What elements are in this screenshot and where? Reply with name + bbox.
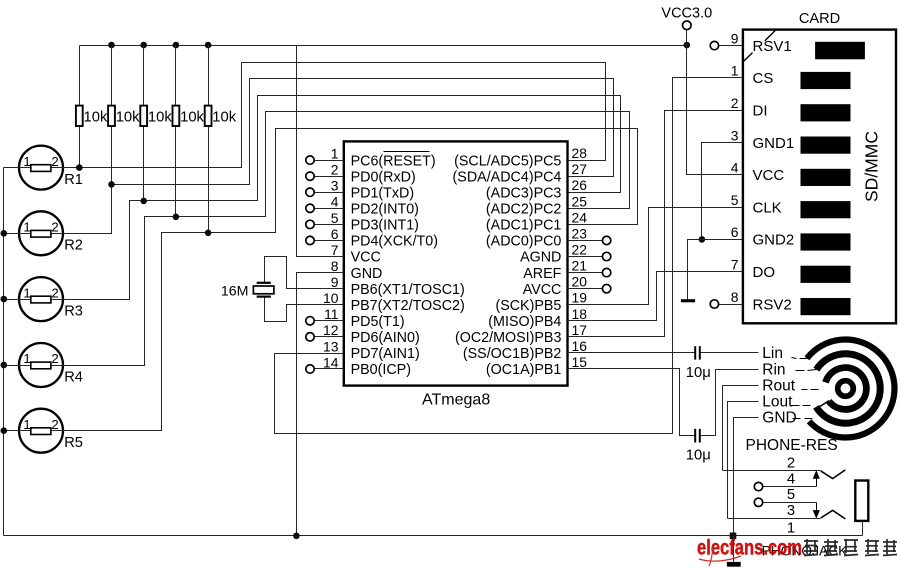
svg-text:10k: 10k [116, 109, 140, 125]
wire pin16 OC1B to C1 [568, 352, 695, 354]
wire Lout down to jack pin3 [728, 402, 759, 519]
wire VCC3.0 to card VCC [687, 46, 743, 175]
svg-text:14: 14 [323, 354, 339, 370]
svg-text:PC6(RESET): PC6(RESET) [351, 153, 436, 169]
dashes Lout [791, 405, 800, 407]
jack pin4 switch [763, 486, 817, 488]
svg-text:AGND: AGND [520, 250, 561, 266]
svg-text:(ADC2)PC2: (ADC2)PC2 [486, 202, 562, 218]
svg-text:CARD: CARD [799, 11, 840, 27]
svg-text:1: 1 [23, 220, 30, 235]
svg-text:PHONE-RES: PHONE-RES [746, 437, 838, 454]
arrow down pin5 [813, 510, 820, 518]
ground symbol bottom [733, 536, 735, 563]
pin 6 open terminal [315, 240, 344, 242]
svg-text:R2: R2 [64, 238, 83, 254]
arrow up pin4 [813, 470, 820, 479]
svg-text:PD4(XCK/T0): PD4(XCK/T0) [351, 234, 438, 250]
svg-text:3: 3 [787, 503, 795, 519]
svg-text:3: 3 [331, 178, 339, 194]
wire R4 to PC2 pin25 [64, 112, 630, 366]
svg-text:10k: 10k [84, 109, 108, 125]
connector J1 SD/MMC card body [743, 30, 896, 324]
wire R4 pin1 to ground rail [4, 365, 20, 367]
svg-text:16M: 16M [221, 283, 249, 299]
svg-text:CS: CS [753, 70, 774, 87]
svg-text:PB0(ICP): PB0(ICP) [351, 362, 411, 378]
card pad GND1 [801, 137, 851, 154]
svg-text:1: 1 [23, 154, 30, 169]
svg-text:VCC: VCC [753, 167, 785, 184]
svg-text:2: 2 [51, 154, 58, 169]
wire R5 to PC1 pin24 [64, 129, 638, 431]
dashes Rin [796, 370, 805, 372]
wire R1 to PC5 pin28 [64, 63, 606, 168]
svg-text:2: 2 [51, 285, 58, 300]
svg-text:10μ: 10μ [686, 365, 711, 381]
card RSV1 open terminal [719, 45, 743, 47]
svg-text:SD/MMC: SD/MMC [862, 131, 882, 202]
svg-text:(SCL/ADC5)PC5: (SCL/ADC5)PC5 [454, 153, 561, 169]
resistor 10k #4 [175, 46, 177, 106]
svg-text:PD0(RxD): PD0(RxD) [351, 169, 416, 185]
svg-text:PD5(T1): PD5(T1) [351, 314, 405, 330]
svg-text:2: 2 [787, 456, 795, 472]
svg-text:18: 18 [572, 306, 588, 322]
svg-text:4: 4 [787, 471, 795, 487]
dashes GND [793, 418, 801, 420]
svg-text:10k: 10k [212, 109, 236, 125]
svg-text:25: 25 [572, 193, 588, 209]
svg-text:2: 2 [51, 220, 58, 235]
svg-text:RSV1: RSV1 [753, 38, 792, 55]
wire pin9 XT1 to crystal [265, 257, 344, 289]
svg-text:1: 1 [731, 63, 739, 79]
svg-text:GND: GND [762, 410, 796, 427]
svg-text:(OC2/MOSI)PB3: (OC2/MOSI)PB3 [455, 330, 562, 346]
svg-text:27: 27 [572, 161, 588, 177]
card pad CLK [801, 201, 851, 218]
svg-text:DO: DO [753, 264, 776, 281]
jack pin2 tip wire [723, 470, 821, 472]
svg-text:R5: R5 [64, 435, 83, 451]
svg-text:2: 2 [51, 417, 58, 432]
wire card CLK to pin19 SCK [568, 208, 743, 305]
svg-text:10k: 10k [180, 109, 204, 125]
svg-text:(SDA/ADC4)PC4: (SDA/ADC4)PC4 [453, 169, 562, 185]
svg-text:PD1(TxD): PD1(TxD) [351, 185, 415, 201]
svg-text:3: 3 [731, 127, 739, 143]
svg-text:6: 6 [731, 224, 739, 240]
jack sleeve contact [821, 510, 846, 519]
resistor 10k #2 [111, 46, 113, 106]
svg-text:(ADC0)PC0: (ADC0)PC0 [486, 234, 562, 250]
svg-text:4: 4 [331, 194, 339, 210]
pin 3 open terminal [315, 192, 344, 194]
svg-text:2: 2 [731, 95, 739, 111]
pin 4 open terminal [315, 208, 344, 210]
resistor 10k #5 [208, 46, 210, 106]
pin 11 open terminal [315, 320, 344, 322]
wire R3 pin1 to ground rail [4, 299, 20, 301]
wire card CS to pin13 PD7 [275, 78, 743, 434]
svg-text:Lin: Lin [762, 345, 783, 362]
pushbutton R3 [19, 277, 63, 321]
svg-text:6: 6 [331, 226, 339, 242]
svg-text:1: 1 [23, 351, 30, 366]
pin 2 open terminal [315, 176, 344, 178]
svg-text:8: 8 [331, 258, 339, 274]
svg-text:19: 19 [572, 290, 588, 306]
wire Rout down to jack pin2 [723, 386, 759, 471]
svg-text:26: 26 [572, 177, 588, 193]
svg-text:RSV2: RSV2 [753, 296, 792, 313]
card RSV2 open terminal [719, 304, 743, 306]
svg-text:28: 28 [572, 145, 588, 161]
svg-text:10μ: 10μ [686, 448, 711, 464]
svg-text:elecfans.com: elecfans.com [697, 536, 802, 560]
svg-text:R3: R3 [64, 304, 83, 320]
power terminal VCC3.0 [683, 21, 692, 30]
wire card GND1 down [702, 143, 743, 240]
card pad CS [801, 72, 851, 89]
wire R5 pin1 to ground rail [4, 430, 20, 432]
jack pin5 switch [763, 502, 817, 504]
svg-text:R4: R4 [64, 369, 83, 385]
pin 14 open terminal [315, 368, 344, 370]
svg-text:CLK: CLK [753, 199, 782, 216]
svg-text:PD3(INT1): PD3(INT1) [351, 218, 419, 234]
card pad RSV2 [801, 298, 851, 315]
pin 23 open terminal [568, 240, 603, 242]
wire card DI to pin17 MOSI [568, 111, 743, 337]
pin 5 open terminal [315, 224, 344, 226]
crystal Y1 16M [257, 282, 271, 284]
speaker symbol rings [838, 381, 854, 397]
svg-text:Lout: Lout [762, 394, 793, 411]
svg-text:22: 22 [572, 242, 588, 258]
svg-text:GND1: GND1 [753, 135, 795, 152]
pushbutton R1 [19, 146, 63, 190]
jack body [855, 481, 868, 521]
svg-text:(MISO)PB4: (MISO)PB4 [488, 314, 561, 330]
card pad RSV1 [815, 42, 865, 60]
svg-text:9: 9 [731, 30, 739, 46]
svg-text:(ADC3)PC3: (ADC3)PC3 [486, 185, 562, 201]
wire R1 pin1 to ground rail [4, 167, 20, 169]
resistor 10k #1 [79, 46, 81, 106]
wire pin10 XT2 to crystal [265, 296, 344, 322]
jack tip contact [821, 470, 846, 479]
op-amp U1 ATmega8 MCU body [344, 141, 568, 385]
pin 12 open terminal [315, 336, 344, 338]
svg-text:Rout: Rout [762, 378, 795, 395]
wire card GND2 to ground [688, 240, 743, 300]
svg-text:11: 11 [324, 306, 339, 322]
wire PHONE-RES GND to ground rail [734, 418, 759, 536]
card corner chamfer [743, 53, 752, 62]
wire jack body to ground rail [862, 521, 864, 536]
svg-text:13: 13 [323, 338, 339, 354]
dashes Lin [792, 358, 797, 359]
pin 20 open terminal [568, 288, 603, 290]
svg-text:5: 5 [787, 487, 795, 503]
svg-text:23: 23 [572, 225, 588, 241]
pushbutton R4 [19, 343, 63, 387]
card pad VCC [801, 169, 851, 186]
card pad GND2 [801, 233, 851, 250]
svg-text:GND: GND [351, 266, 383, 282]
wire card DO to pin18 MISO [568, 272, 743, 321]
card pad DI [801, 104, 851, 121]
svg-text:5: 5 [731, 192, 739, 208]
svg-text:AREF: AREF [523, 266, 561, 282]
pin 21 open terminal [568, 272, 603, 274]
svg-text:12: 12 [323, 322, 339, 338]
wire C1 to Lin [701, 352, 759, 354]
svg-text:(SCK)PB5: (SCK)PB5 [495, 298, 561, 314]
wire bottom ground rail [4, 535, 733, 537]
svg-text:VCC: VCC [351, 250, 381, 266]
wire resistor bottoms [79, 127, 81, 168]
card pad DO [801, 266, 851, 283]
resistor 10k #3 [143, 46, 145, 106]
jack pin3 sleeve wire [728, 518, 821, 520]
svg-text:20: 20 [572, 274, 588, 290]
svg-text:(SS/OC1B)PB2: (SS/OC1B)PB2 [463, 346, 562, 362]
svg-text:2: 2 [331, 162, 339, 178]
wire C2 to Rin [701, 370, 759, 436]
RESET overline [384, 151, 430, 153]
wire pin15 OC1A to C2 [568, 369, 695, 436]
svg-text:7: 7 [731, 257, 739, 273]
svg-text:9: 9 [331, 274, 339, 290]
wire R2 pin1 to ground rail [4, 233, 20, 235]
svg-text:AVCC: AVCC [523, 282, 562, 298]
svg-text:PB7(XT2/TOSC2): PB7(XT2/TOSC2) [351, 298, 465, 314]
svg-text:24: 24 [572, 209, 588, 225]
svg-text:5: 5 [331, 210, 339, 226]
svg-text:R1: R1 [64, 172, 83, 188]
svg-text:GND2: GND2 [753, 232, 795, 249]
svg-text:8: 8 [731, 289, 739, 305]
svg-text:DI: DI [753, 103, 768, 120]
wire R2 to PC4 pin27 [64, 79, 614, 234]
dashes Rout [802, 389, 808, 391]
pin 1 open terminal [315, 160, 344, 162]
svg-text:Rin: Rin [762, 361, 785, 378]
svg-text:4: 4 [731, 160, 739, 176]
svg-text:1: 1 [331, 146, 339, 162]
svg-text:7: 7 [331, 242, 339, 258]
svg-text:VCC3.0: VCC3.0 [661, 6, 712, 22]
pin 22 open terminal [568, 256, 603, 258]
svg-text:PB6(XT1/TOSC1): PB6(XT1/TOSC1) [351, 282, 465, 298]
svg-text:1: 1 [23, 285, 30, 300]
svg-text:21: 21 [572, 258, 588, 274]
wire R3 to PC3 pin26 [64, 96, 621, 300]
svg-text:10k: 10k [148, 109, 172, 125]
svg-text:2: 2 [51, 351, 58, 366]
node VCC3.0 power bus [80, 45, 687, 47]
svg-text:PD6(AIN0): PD6(AIN0) [351, 330, 420, 346]
watermark chinese characters [804, 539, 818, 556]
svg-text:15: 15 [572, 354, 588, 370]
svg-text:PD7(AIN1): PD7(AIN1) [351, 346, 420, 362]
svg-text:(OC1A)PB1: (OC1A)PB1 [486, 362, 562, 378]
wire VCC bus to pin7 [297, 46, 344, 257]
wire left ground rail [3, 168, 5, 536]
svg-text:1: 1 [787, 521, 795, 537]
svg-text:17: 17 [572, 322, 588, 338]
svg-text:10: 10 [323, 290, 339, 306]
svg-text:(ADC1)PC1: (ADC1)PC1 [486, 218, 562, 234]
svg-text:ATmega8: ATmega8 [422, 392, 490, 409]
junction at ground rail [730, 533, 737, 540]
pushbutton R2 [19, 211, 63, 255]
svg-text:16: 16 [572, 338, 588, 354]
wire pin8 GND to ground rail [297, 273, 344, 536]
svg-text:1: 1 [23, 417, 30, 432]
ground symbol at card [681, 299, 695, 302]
capacitor C1 10u [694, 346, 696, 359]
svg-text:PD2(INT0): PD2(INT0) [351, 202, 419, 218]
capacitor C2 10u [694, 429, 696, 443]
pushbutton R5 [19, 409, 63, 453]
